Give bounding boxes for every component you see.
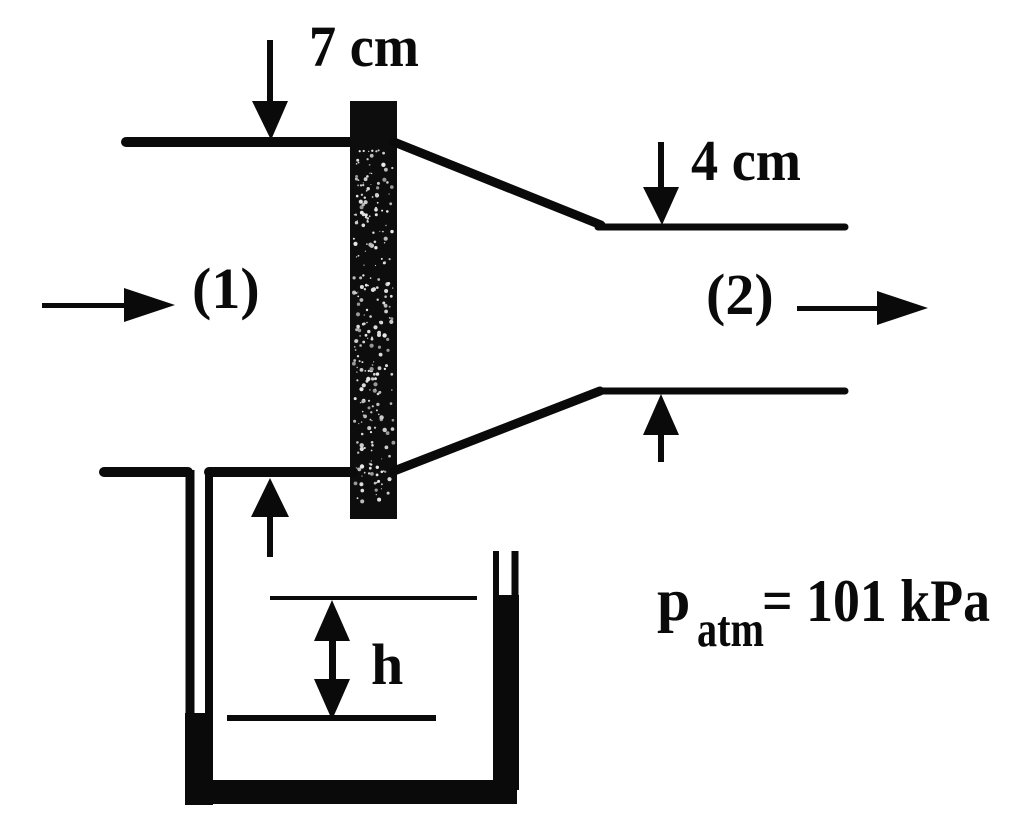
dimension arrow up at throat bottom [643, 394, 679, 462]
flow arrow outlet [797, 291, 928, 325]
dimension arrow h double-headed [314, 600, 350, 720]
pipe wall top-left [126, 137, 354, 147]
liquid level lower [227, 715, 436, 721]
pipe wall bottom-right [600, 388, 845, 395]
reservoir right wall liquid [493, 595, 519, 790]
pipe wall bottom-left segment A [104, 467, 188, 477]
dimension arrow 7 cm [252, 40, 288, 140]
pipe wall top-right [598, 224, 845, 231]
label p atm = 101 kPa [657, 567, 990, 658]
svg-text:atm: atm [697, 602, 764, 658]
dimension arrow 4 cm [643, 142, 679, 225]
svg-text:= 101 kPa: = 101 kPa [762, 568, 990, 634]
svg-text:p: p [657, 567, 690, 633]
manometer tube left wall [186, 470, 195, 782]
svg-text:7 cm: 7 cm [309, 14, 419, 79]
svg-text:4 cm: 4 cm [691, 128, 801, 193]
converging wall top [394, 142, 601, 225]
reservoir right standpipe [496, 551, 515, 600]
flow arrow inlet [42, 288, 175, 322]
svg-text:h: h [371, 632, 403, 697]
svg-text:(2): (2) [706, 262, 774, 327]
manometer tube right wall [205, 472, 213, 715]
svg-text:(1): (1) [192, 256, 260, 321]
converging wall bottom [394, 391, 600, 471]
dimension arrow up at inlet bottom [251, 478, 289, 557]
liquid level upper [270, 596, 477, 600]
reservoir bottom wall [186, 780, 517, 804]
pipe wall bottom-left segment B [209, 467, 353, 477]
manometer tube liquid column [185, 713, 213, 805]
orifice plate [350, 101, 397, 519]
